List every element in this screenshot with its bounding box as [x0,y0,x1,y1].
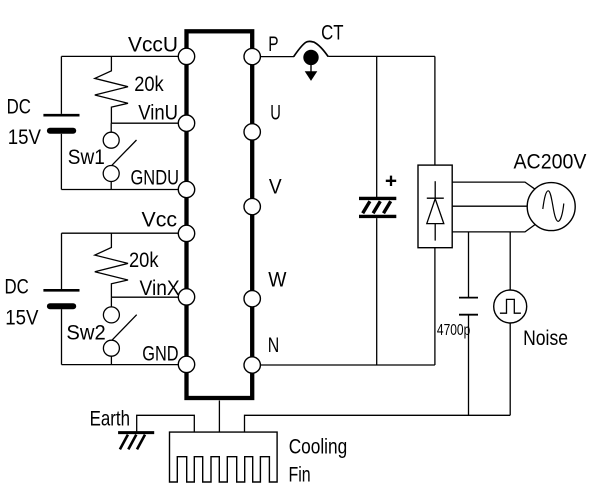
svg-text:N: N [268,334,280,357]
wire GND rail [62,364,179,366]
wire noise source top lead [509,232,511,290]
svg-text:Sw1: Sw1 [68,146,105,169]
wire Vcc rail [62,232,179,234]
svg-text:GND: GND [142,342,178,365]
pin U [244,124,260,140]
wire CT to rectifier corner [328,55,435,57]
svg-text:P: P [268,33,278,56]
wire switch1 top lead [110,123,112,132]
svg-text:15V: 15V [5,307,38,330]
pin Vcc [178,225,194,241]
resistor R2 20k [95,233,128,297]
svg-text:VinX: VinX [140,277,180,300]
CT arrow stem [310,64,312,73]
wire VinX rail [111,296,178,298]
resistor R1 20k [95,56,128,123]
capacitor C2 4700p top plate [459,297,478,299]
diode cathode bar [427,197,444,199]
svg-text:AC200V: AC200V [514,150,587,173]
wire N rail [260,364,435,366]
capacitor C1 plus sign [386,176,396,186]
svg-text:GNDU: GNDU [131,167,180,190]
battery B1 positive plate [43,114,79,117]
svg-text:DC: DC [7,95,31,118]
noise source pulse symbol [500,299,521,313]
IPM module body U1 [187,31,253,398]
pin P [244,48,260,64]
wire smoothing cap bottom lead [376,218,378,365]
cooling fin heatsink [170,432,278,482]
battery B2 negative plate [50,303,73,309]
svg-text:Sw2: Sw2 [66,322,105,345]
wire 4700p bottom lead [468,315,470,416]
wire rectifier bottom lead [434,248,436,365]
wire switch2 top lead [110,297,112,307]
switch Sw2 top contact [103,307,119,323]
svg-text:W: W [268,269,286,292]
diode anode lead [434,224,436,241]
wire earth branch [137,415,195,432]
wire switch2 bottom lead [110,356,112,364]
switch Sw1 blade [112,140,137,165]
earth symbol bar [118,431,154,434]
svg-text:V: V [269,176,282,199]
wire bottom ground bus [245,415,511,432]
wire P to CT [260,56,294,58]
AC source sine wave [543,191,564,222]
svg-text:Noise: Noise [523,327,568,350]
svg-text:20k: 20k [129,249,159,272]
svg-text:DC: DC [5,275,29,298]
wire battery1 bottom lead [60,134,62,190]
pin VinX [178,289,194,305]
wire noise source bottom lead [509,323,511,415]
pin W [244,291,260,307]
pin VccU [178,48,194,64]
earth symbol stroke 1 [120,435,128,450]
wire battery2 top lead [61,233,63,289]
noise source G2 circle [494,290,527,323]
wire AC phase R [452,182,535,189]
wire smoothing cap top lead [376,56,378,197]
wire module to fin stem [218,401,220,433]
svg-text:15V: 15V [8,126,41,149]
svg-text:4700p: 4700p [437,322,470,339]
AC source G1 circle [527,183,575,231]
switch Sw1 bottom contact [103,166,119,182]
earth symbol stroke 3 [137,435,145,450]
wire battery2 bottom lead [61,309,63,364]
diode triangle [427,199,444,224]
capacitor C1 hatch stroke 3 [384,201,391,213]
capacitor C1 hatch stroke 2 [373,201,380,213]
wire battery1 top lead [60,56,62,114]
svg-text:Earth: Earth [90,407,130,430]
capacitor C1 hatch stroke 1 [363,201,370,213]
battery B1 negative plate [50,128,73,134]
svg-text:CT: CT [321,22,344,45]
CT sensing dot [303,50,318,65]
CT hump [294,41,329,56]
svg-text:20k: 20k [134,73,164,96]
wire switch1 bottom lead [110,182,112,190]
wire AC phase T [452,225,535,232]
diode cathode lead [434,181,436,198]
svg-text:Fin: Fin [289,464,311,487]
earth symbol stroke 2 [128,435,136,450]
switch Sw2 bottom contact [103,340,119,356]
pin GND [178,356,194,372]
switch Sw1 top contact [103,132,119,148]
wire 4700p top lead [468,232,470,298]
capacitor C1 top plate [359,197,396,200]
pin GNDU [178,181,194,197]
capacitor C2 4700p bottom plate [459,314,478,316]
rectifier bridge box D1 [418,165,452,248]
wire rectifier top lead [434,56,436,165]
wire AC phase S [452,205,527,207]
battery B2 positive plate [43,289,79,292]
CT arrowhead [305,71,318,81]
svg-text:Cooling: Cooling [289,435,348,458]
pin VinU [178,115,194,131]
wire VinU rail [111,122,178,124]
wire VccU rail [61,55,178,57]
svg-text:Vcc: Vcc [142,209,178,232]
pin N [244,357,260,373]
svg-text:VinU: VinU [138,102,178,125]
wire GNDU rail [61,189,178,191]
pin V [244,198,260,214]
svg-text:VccU: VccU [128,34,178,57]
capacitor C1 bottom plate [359,215,396,218]
switch Sw2 blade [112,315,137,340]
svg-text:U: U [270,102,281,125]
